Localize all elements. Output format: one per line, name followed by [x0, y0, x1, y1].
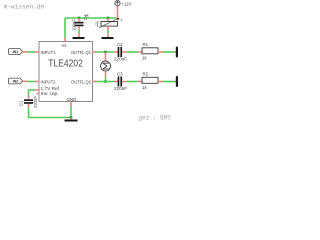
svg-text:Inv. Inp: Inv. Inp [41, 91, 59, 96]
wire top rail [65, 17, 118, 19]
capacitor C2 220nF [114, 42, 127, 61]
wire [78, 30, 80, 34]
op-amp U1 TLE4202 [39, 42, 93, 102]
wire [107, 26, 109, 30]
pin Inv. Inp [37, 93, 40, 95]
wire [27, 81, 35, 83]
node junction C4 top [78, 17, 81, 20]
node junction gnd [70, 116, 73, 119]
svg-text:2: 2 [95, 22, 97, 26]
svg-text:100nF: 100nF [72, 19, 77, 31]
wire ref pin to C1 [29, 90, 36, 96]
speaker LS1 [101, 52, 111, 77]
connector flag IN2 [9, 78, 28, 84]
svg-text:R1: R1 [143, 42, 149, 47]
supply +12V [115, 1, 132, 18]
wire R1 to pad [163, 51, 176, 53]
wire speaker down [105, 77, 107, 82]
connector flag IN1 [9, 49, 28, 55]
wire OUTFL.Q2 to C3 [97, 81, 115, 83]
wire R2 to pad [163, 81, 176, 83]
svg-text:OUTFL.Q1: OUTFL.Q1 [71, 50, 91, 55]
svg-text:C2: C2 [117, 42, 123, 47]
connector pad out2 [175, 76, 178, 87]
svg-text:Vs: Vs [62, 43, 68, 48]
wire OUTFL.Q1 to C2 [97, 51, 115, 53]
resistor R2 1k [138, 72, 163, 90]
svg-text:TLE4202: TLE4202 [48, 57, 83, 69]
pin INPUT1 [35, 51, 39, 53]
node junction trimmer top [107, 17, 110, 20]
pin OUTFL.Q2 [93, 81, 97, 83]
svg-text:220nF: 220nF [114, 56, 127, 61]
svg-text:3: 3 [121, 18, 123, 22]
svg-text:IN2: IN2 [13, 80, 19, 84]
svg-text:220nF: 220nF [114, 86, 127, 91]
pin GND [70, 102, 72, 106]
svg-text:R2: R2 [143, 72, 149, 77]
svg-text:220nF: 220nF [33, 96, 38, 108]
pin Vs [64, 38, 66, 42]
capacitor C4 100nF [72, 14, 89, 31]
svg-text:1k: 1k [85, 13, 89, 18]
pin INPUT2 [35, 81, 39, 83]
pin 1.7V Ref [35, 89, 39, 91]
svg-text:C1: C1 [19, 100, 24, 106]
svg-text:C3: C3 [117, 72, 123, 77]
wire C1 bottom to gnd rail [29, 108, 72, 118]
ground [102, 34, 114, 40]
capacitor C3 220nF [114, 72, 127, 91]
svg-text:INPUT1: INPUT1 [41, 50, 56, 55]
wire [27, 51, 35, 53]
svg-text:INPUT2: INPUT2 [41, 79, 56, 84]
wire C2 to R1 [127, 51, 139, 53]
pin OUTFL.Q1 [93, 51, 97, 53]
svg-text:IN1: IN1 [13, 50, 19, 54]
svg-text:gez.: BMS: gez.: BMS [139, 115, 172, 122]
svg-text:OUTFL.Q2: OUTFL.Q2 [71, 79, 91, 84]
node junction speaker top [104, 51, 107, 54]
svg-text:GND: GND [67, 97, 77, 102]
svg-text:1k: 1k [142, 85, 147, 90]
capacitor C1 220nF [19, 96, 39, 109]
trimmer P1 1k [85, 13, 123, 28]
resistor R1 1k [138, 42, 163, 60]
connector pad out1 [175, 47, 178, 58]
svg-text:+12V: +12V [122, 2, 132, 7]
node junction speaker bottom [104, 80, 107, 83]
svg-text:m-wissen.de: m-wissen.de [4, 4, 45, 11]
wire Vs vertical [64, 18, 66, 38]
ground [65, 118, 78, 122]
wire C3 to R2 [127, 81, 139, 83]
svg-text:1k: 1k [142, 55, 147, 60]
ground [73, 34, 85, 40]
wire GND pin down [70, 106, 72, 118]
